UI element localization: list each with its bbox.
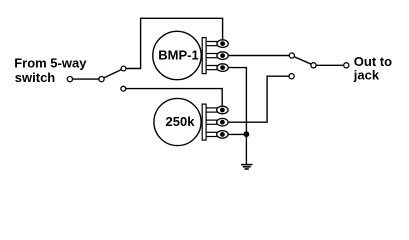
wire 250k lug2 up to right switch lower throw <box>228 76 289 122</box>
250k lug3 arm <box>206 132 218 136</box>
switch SW2 lower throw contact <box>289 74 294 79</box>
switch SW1 lower throw contact <box>121 86 126 91</box>
250k lug1 arm <box>206 108 218 112</box>
switch SW2 pole contact <box>311 63 316 68</box>
BMP-1 lug2 arm <box>206 54 218 58</box>
svg-text:jack: jack <box>353 68 380 83</box>
BMP-1 lug3 eyelet <box>217 64 228 72</box>
wire from input terminal to switch pole <box>73 78 100 80</box>
wire 250k lug3 to ground bus <box>228 133 246 135</box>
BMP-1 lug1 arm <box>206 42 218 46</box>
wire upper throw to BMP-1 lug1 (up over the top) <box>126 18 223 68</box>
svg-text:250k: 250k <box>166 114 196 129</box>
wire BMP-1 lug2 to right switch upper throw <box>228 55 289 57</box>
switch SW2 blade (upper throw to pole) <box>294 57 311 64</box>
BMP-1 lug1 eyelet <box>217 40 228 48</box>
BMP-1 lug3 arm <box>206 66 218 70</box>
node input terminal (from 5-way switch) <box>67 77 72 82</box>
BMP-1 lug2 eyelet <box>217 52 228 60</box>
svg-text:BMP-1: BMP-1 <box>158 47 198 62</box>
250k lug3 eyelet <box>217 131 228 139</box>
ground <box>241 165 252 169</box>
junction dot ground bus <box>244 131 250 137</box>
switch SW1 upper throw contact <box>121 66 126 71</box>
switch SW1 pole contact <box>99 77 104 82</box>
potentiometer 250k body <box>154 98 201 145</box>
label "Out to jack" <box>353 54 392 83</box>
node output terminal (out to jack) <box>344 63 349 68</box>
250k lug1 eyelet <box>217 106 228 114</box>
label "From 5-way switch" <box>14 56 87 86</box>
wire pole to output terminal <box>316 64 344 66</box>
potentiometer 250k lug plate <box>202 104 206 140</box>
potentiometer BMP-1 lug plate <box>202 38 206 74</box>
wire BMP-1 lug3 down to ground bus <box>228 68 246 165</box>
wire lower throw to 250k lug1 <box>126 89 223 108</box>
250k lug2 arm <box>206 120 218 124</box>
potentiometer BMP-1 body <box>153 31 201 79</box>
250k lug2 eyelet <box>217 118 228 126</box>
switch SW2 upper throw contact <box>289 53 294 58</box>
switch SW1 blade (pole to upper throw) <box>104 70 122 78</box>
svg-text:From 5-way: From 5-way <box>14 56 87 71</box>
svg-text:switch: switch <box>15 70 56 85</box>
